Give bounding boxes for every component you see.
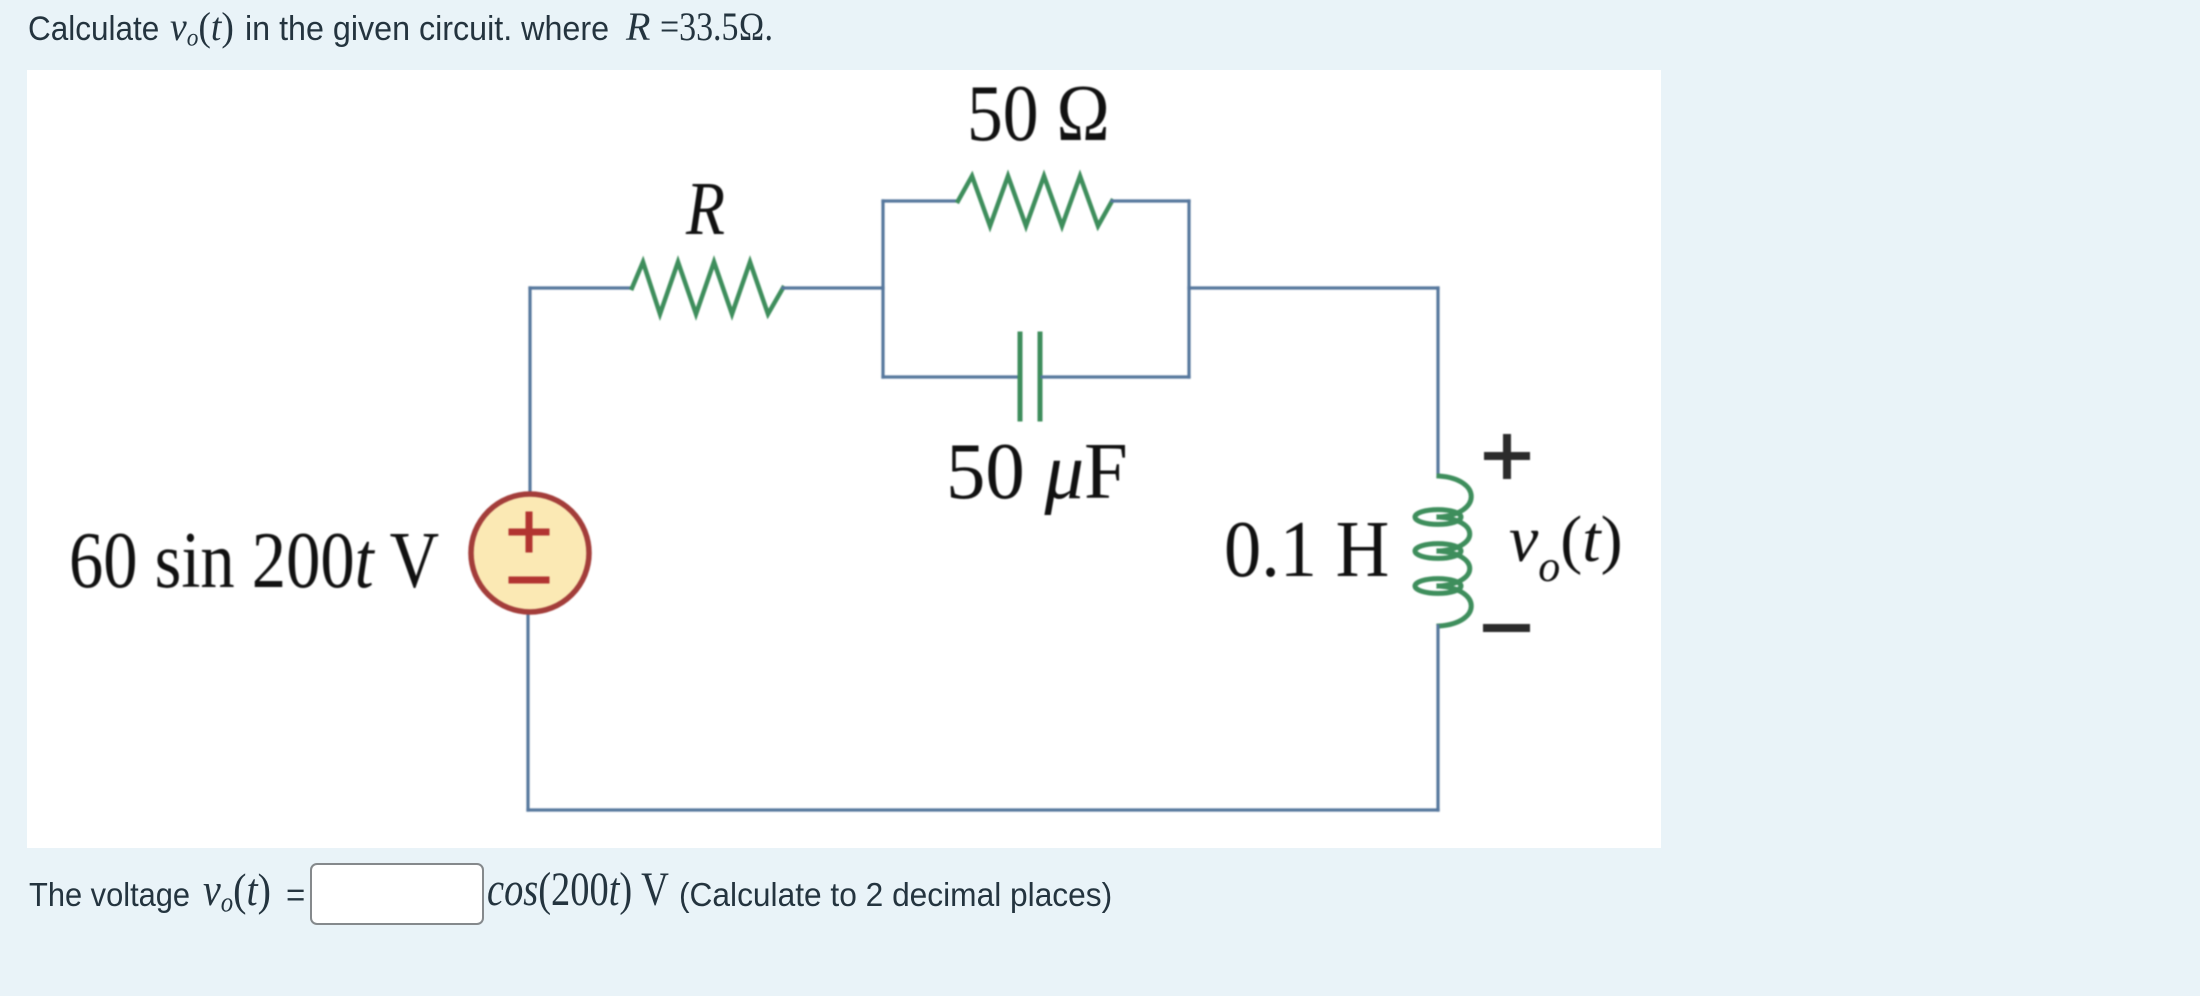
inductor 0.1H coil bump 1 xyxy=(1439,476,1471,517)
wire: R to parallel box xyxy=(783,286,883,289)
svg-text:0.1 H: 0.1 H xyxy=(1224,505,1389,594)
wire: right vertical upper (down to inductor) xyxy=(1436,288,1439,476)
resistor 50 ohm zigzag xyxy=(958,176,1112,226)
inductor 0.1H coil bump 4 xyxy=(1439,586,1471,626)
problem title: "Calculate vo(t) in the given circuit. where R =33.5Ω." xyxy=(28,12,159,46)
wire: parallel box top edge left part xyxy=(883,199,958,202)
svg-text:R: R xyxy=(685,167,725,251)
inductor polarity minus sign xyxy=(1487,624,1526,632)
inductor 0.1H loop ellipse 3 xyxy=(1415,579,1461,594)
source V1 minus sign xyxy=(512,577,546,584)
inductor 0.1H loop ellipse 2 xyxy=(1415,544,1461,559)
wire: right vertical lower (inductor to bottom corner) xyxy=(1436,626,1439,810)
capacitor 50uF left plate xyxy=(1018,334,1023,419)
inductor 0.1H coil bump 2 xyxy=(1439,517,1470,551)
answer line: The voltage vo(t) = [input] cos(200t) V (Calculate to 2 decimal places) xyxy=(29,878,190,911)
svg-text:50 Ω: 50 Ω xyxy=(967,69,1110,158)
wire: parallel box right edge xyxy=(1187,201,1190,377)
inductor 0.1H loop ellipse 1 xyxy=(1415,510,1461,525)
svg-text:60 sin 200t V: 60 sin 200t V xyxy=(69,517,439,605)
source V1: 60 sin 200t V circle xyxy=(471,494,589,612)
resistor R zigzag xyxy=(632,262,783,314)
inductor polarity plus sign xyxy=(1488,438,1526,475)
wire: bottom horizontal xyxy=(528,808,1438,811)
wire: top-left horizontal from source branch to resistor R xyxy=(530,286,632,289)
wire: parallel box left edge xyxy=(881,201,884,377)
capacitor 50uF right plate xyxy=(1038,334,1043,419)
svg-text:vo(t): vo(t) xyxy=(1509,503,1623,591)
inductor 0.1H coil bump 3 xyxy=(1439,551,1470,586)
svg-text:50 μF: 50 μF xyxy=(946,427,1128,516)
answer input box xyxy=(310,863,484,925)
wire: parallel box bottom edge left part xyxy=(883,375,1018,378)
wire: left vertical upper (down to source top) xyxy=(528,288,531,492)
wire: box to top-right corner xyxy=(1189,286,1438,289)
source V1 plus sign xyxy=(512,515,546,549)
wire: parallel box bottom edge right part xyxy=(1042,375,1189,378)
wire: parallel box top edge right part xyxy=(1112,199,1189,202)
wire: left vertical lower (source bottom to bottom corner) xyxy=(526,614,529,810)
white circuit panel xyxy=(27,70,1661,848)
